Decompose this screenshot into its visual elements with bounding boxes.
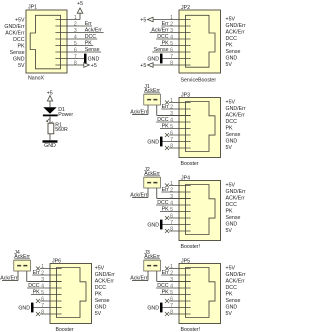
svg-text:8: 8 <box>74 60 77 66</box>
svg-text:DCC: DCC <box>226 36 238 42</box>
svg-text:PK: PK <box>17 43 25 49</box>
svg-text:5: 5 <box>170 207 173 213</box>
svg-text:AckErr: AckErr <box>14 254 30 260</box>
svg-text:4: 4 <box>170 117 173 123</box>
svg-text:GND/Err: GND/Err <box>226 189 246 195</box>
svg-text:GND/Err: GND/Err <box>95 272 115 278</box>
svg-text:AckErr: AckErr <box>144 88 160 94</box>
svg-text:6: 6 <box>170 47 173 53</box>
svg-text:Sense: Sense <box>10 50 25 56</box>
svg-text:5: 5 <box>170 124 173 130</box>
svg-text:GND: GND <box>147 223 159 229</box>
svg-text:2: 2 <box>41 270 44 276</box>
svg-text:3: 3 <box>170 277 173 283</box>
svg-text:3: 3 <box>170 194 173 200</box>
svg-text:3: 3 <box>170 111 173 117</box>
svg-text:AckErr: AckErr <box>144 171 160 177</box>
svg-text:PK: PK <box>162 124 170 130</box>
svg-text:Sense: Sense <box>154 47 169 53</box>
svg-text:+5V: +5V <box>15 17 25 23</box>
svg-text:ServiceBooster: ServiceBooster <box>181 78 217 84</box>
svg-text:7: 7 <box>170 220 173 226</box>
svg-text:8: 8 <box>170 309 173 315</box>
svg-text:Sense: Sense <box>85 47 100 53</box>
svg-text:8: 8 <box>170 226 173 232</box>
svg-text:Power: Power <box>58 112 73 118</box>
svg-text:ACK/Err: ACK/Err <box>226 113 246 119</box>
svg-text:4: 4 <box>41 283 44 289</box>
svg-text:ACK/Err: ACK/Err <box>95 279 115 285</box>
svg-text:6: 6 <box>74 47 77 53</box>
svg-text:2: 2 <box>170 187 173 193</box>
svg-text:1: 1 <box>170 15 173 21</box>
svg-text:GND: GND <box>44 143 56 149</box>
svg-text:GND: GND <box>88 57 100 63</box>
svg-text:GND/Err: GND/Err <box>226 272 246 278</box>
svg-text:PK: PK <box>162 290 170 296</box>
svg-text:7: 7 <box>170 54 173 60</box>
svg-text:2: 2 <box>170 21 173 27</box>
svg-text:Sense: Sense <box>226 215 241 221</box>
svg-text:6: 6 <box>170 296 173 302</box>
svg-text:1: 1 <box>41 264 44 270</box>
svg-text:3: 3 <box>170 28 173 34</box>
svg-text:3: 3 <box>74 28 77 34</box>
svg-text:2: 2 <box>170 104 173 110</box>
svg-text:4: 4 <box>170 34 173 40</box>
svg-text:5: 5 <box>170 41 173 47</box>
svg-text:GND: GND <box>226 305 238 311</box>
svg-text:+5V: +5V <box>226 266 236 272</box>
svg-text:+5: +5 <box>77 1 83 7</box>
svg-text:Err: Err <box>162 104 169 110</box>
svg-text:JP6: JP6 <box>52 259 61 265</box>
svg-text:Ack/Err: Ack/Err <box>85 28 102 34</box>
svg-text:2: 2 <box>170 270 173 276</box>
svg-text:+5V: +5V <box>226 17 236 23</box>
svg-text:Err: Err <box>162 187 169 193</box>
svg-text:Booster: Booster <box>56 327 74 332</box>
svg-text:5V: 5V <box>226 62 233 68</box>
svg-text:ACK/Err: ACK/Err <box>226 279 246 285</box>
svg-text:7: 7 <box>170 303 173 309</box>
svg-text:6: 6 <box>170 130 173 136</box>
svg-text:DCC: DCC <box>226 202 238 208</box>
svg-text:PK: PK <box>226 292 234 298</box>
svg-text:DCC: DCC <box>85 34 97 40</box>
svg-text:NanoX: NanoX <box>28 76 45 82</box>
svg-text:5V: 5V <box>18 63 25 69</box>
svg-text:Booster!: Booster! <box>181 244 201 250</box>
svg-text:6: 6 <box>41 296 44 302</box>
svg-text:8: 8 <box>41 309 44 315</box>
svg-text:Ack/Err: Ack/Err <box>130 193 147 199</box>
svg-text:DCC: DCC <box>157 200 169 206</box>
svg-text:GND: GND <box>95 305 107 311</box>
svg-text:8: 8 <box>170 143 173 149</box>
svg-text:PK: PK <box>33 290 41 296</box>
svg-text:Err: Err <box>162 21 169 27</box>
svg-text:GND: GND <box>226 56 238 62</box>
svg-text:8: 8 <box>170 60 173 66</box>
svg-text:GND/Err: GND/Err <box>226 23 246 29</box>
svg-text:+5: +5 <box>140 63 146 69</box>
svg-text:7: 7 <box>170 137 173 143</box>
svg-text:Sense: Sense <box>226 132 241 138</box>
svg-text:ACK/Err: ACK/Err <box>226 30 246 36</box>
svg-text:4: 4 <box>170 283 173 289</box>
svg-text:1: 1 <box>170 98 173 104</box>
svg-text:5: 5 <box>170 290 173 296</box>
svg-text:GND/Err: GND/Err <box>226 106 246 112</box>
svg-text:6: 6 <box>170 213 173 219</box>
svg-text:Booster: Booster <box>181 161 199 167</box>
svg-text:PK: PK <box>95 292 103 298</box>
svg-text:DCC: DCC <box>95 285 107 291</box>
svg-text:DCC: DCC <box>226 285 238 291</box>
svg-text:GND: GND <box>147 57 159 63</box>
svg-text:PK: PK <box>162 41 170 47</box>
svg-text:1: 1 <box>170 181 173 187</box>
svg-text:AckErr: AckErr <box>144 254 160 260</box>
svg-text:Ack/Err: Ack/Err <box>130 110 147 116</box>
svg-text:PK: PK <box>226 126 234 132</box>
svg-text:+5V: +5V <box>95 266 105 272</box>
svg-text:5V: 5V <box>226 145 233 151</box>
svg-text:GND: GND <box>147 140 159 146</box>
svg-text:PK: PK <box>85 41 93 47</box>
svg-text:DCC: DCC <box>157 34 169 40</box>
svg-text:DCC: DCC <box>28 283 40 289</box>
svg-text:Ack/Err: Ack/Err <box>130 276 147 282</box>
svg-text:Err: Err <box>85 21 92 27</box>
svg-text:Sense: Sense <box>226 49 241 55</box>
svg-text:DCC: DCC <box>13 37 25 43</box>
svg-text:GND: GND <box>147 306 159 312</box>
svg-text:4: 4 <box>170 200 173 206</box>
svg-text:JP2: JP2 <box>181 5 190 11</box>
svg-text:DCC: DCC <box>226 119 238 125</box>
svg-text:JP5: JP5 <box>181 259 190 265</box>
svg-text:JP3: JP3 <box>181 93 190 99</box>
svg-text:560R: 560R <box>55 127 68 133</box>
svg-text:Err: Err <box>162 270 169 276</box>
svg-text:DCC: DCC <box>157 117 169 123</box>
svg-text:+5: +5 <box>140 17 146 23</box>
svg-text:GND: GND <box>226 222 238 228</box>
svg-text:DCC: DCC <box>157 283 169 289</box>
svg-text:7: 7 <box>41 303 44 309</box>
svg-text:Sense: Sense <box>95 298 110 304</box>
svg-text:Ack/Err: Ack/Err <box>0 276 17 282</box>
svg-text:5V: 5V <box>95 311 102 317</box>
svg-text:+5V: +5V <box>226 183 236 189</box>
svg-text:7: 7 <box>74 54 77 60</box>
svg-text:GND: GND <box>226 139 238 145</box>
svg-text:5V: 5V <box>226 311 233 317</box>
svg-text:4: 4 <box>74 34 77 40</box>
svg-text:PK: PK <box>226 43 234 49</box>
svg-text:5: 5 <box>41 290 44 296</box>
svg-text:5: 5 <box>74 41 77 47</box>
svg-text:GND/Err: GND/Err <box>4 24 24 30</box>
svg-text:+5: +5 <box>91 63 97 69</box>
svg-text:3: 3 <box>41 277 44 283</box>
svg-text:JP1: JP1 <box>28 5 37 11</box>
svg-text:Sense: Sense <box>226 298 241 304</box>
svg-text:ACK/Err: ACK/Err <box>226 196 246 202</box>
svg-text:2: 2 <box>74 21 77 27</box>
svg-text:ACK/Err: ACK/Err <box>5 30 25 36</box>
svg-text:Booster!: Booster! <box>181 327 201 332</box>
svg-text:PK: PK <box>162 207 170 213</box>
svg-text:PK: PK <box>226 209 234 215</box>
svg-text:1: 1 <box>170 264 173 270</box>
svg-text:+5V: +5V <box>226 100 236 106</box>
svg-text:Ack/Err: Ack/Err <box>151 28 168 34</box>
svg-text:Err: Err <box>33 270 40 276</box>
svg-text:JP4: JP4 <box>181 176 190 182</box>
svg-text:5V: 5V <box>226 228 233 234</box>
svg-text:GND: GND <box>18 306 30 312</box>
svg-text:GND: GND <box>13 56 25 62</box>
svg-text:1: 1 <box>74 15 77 21</box>
